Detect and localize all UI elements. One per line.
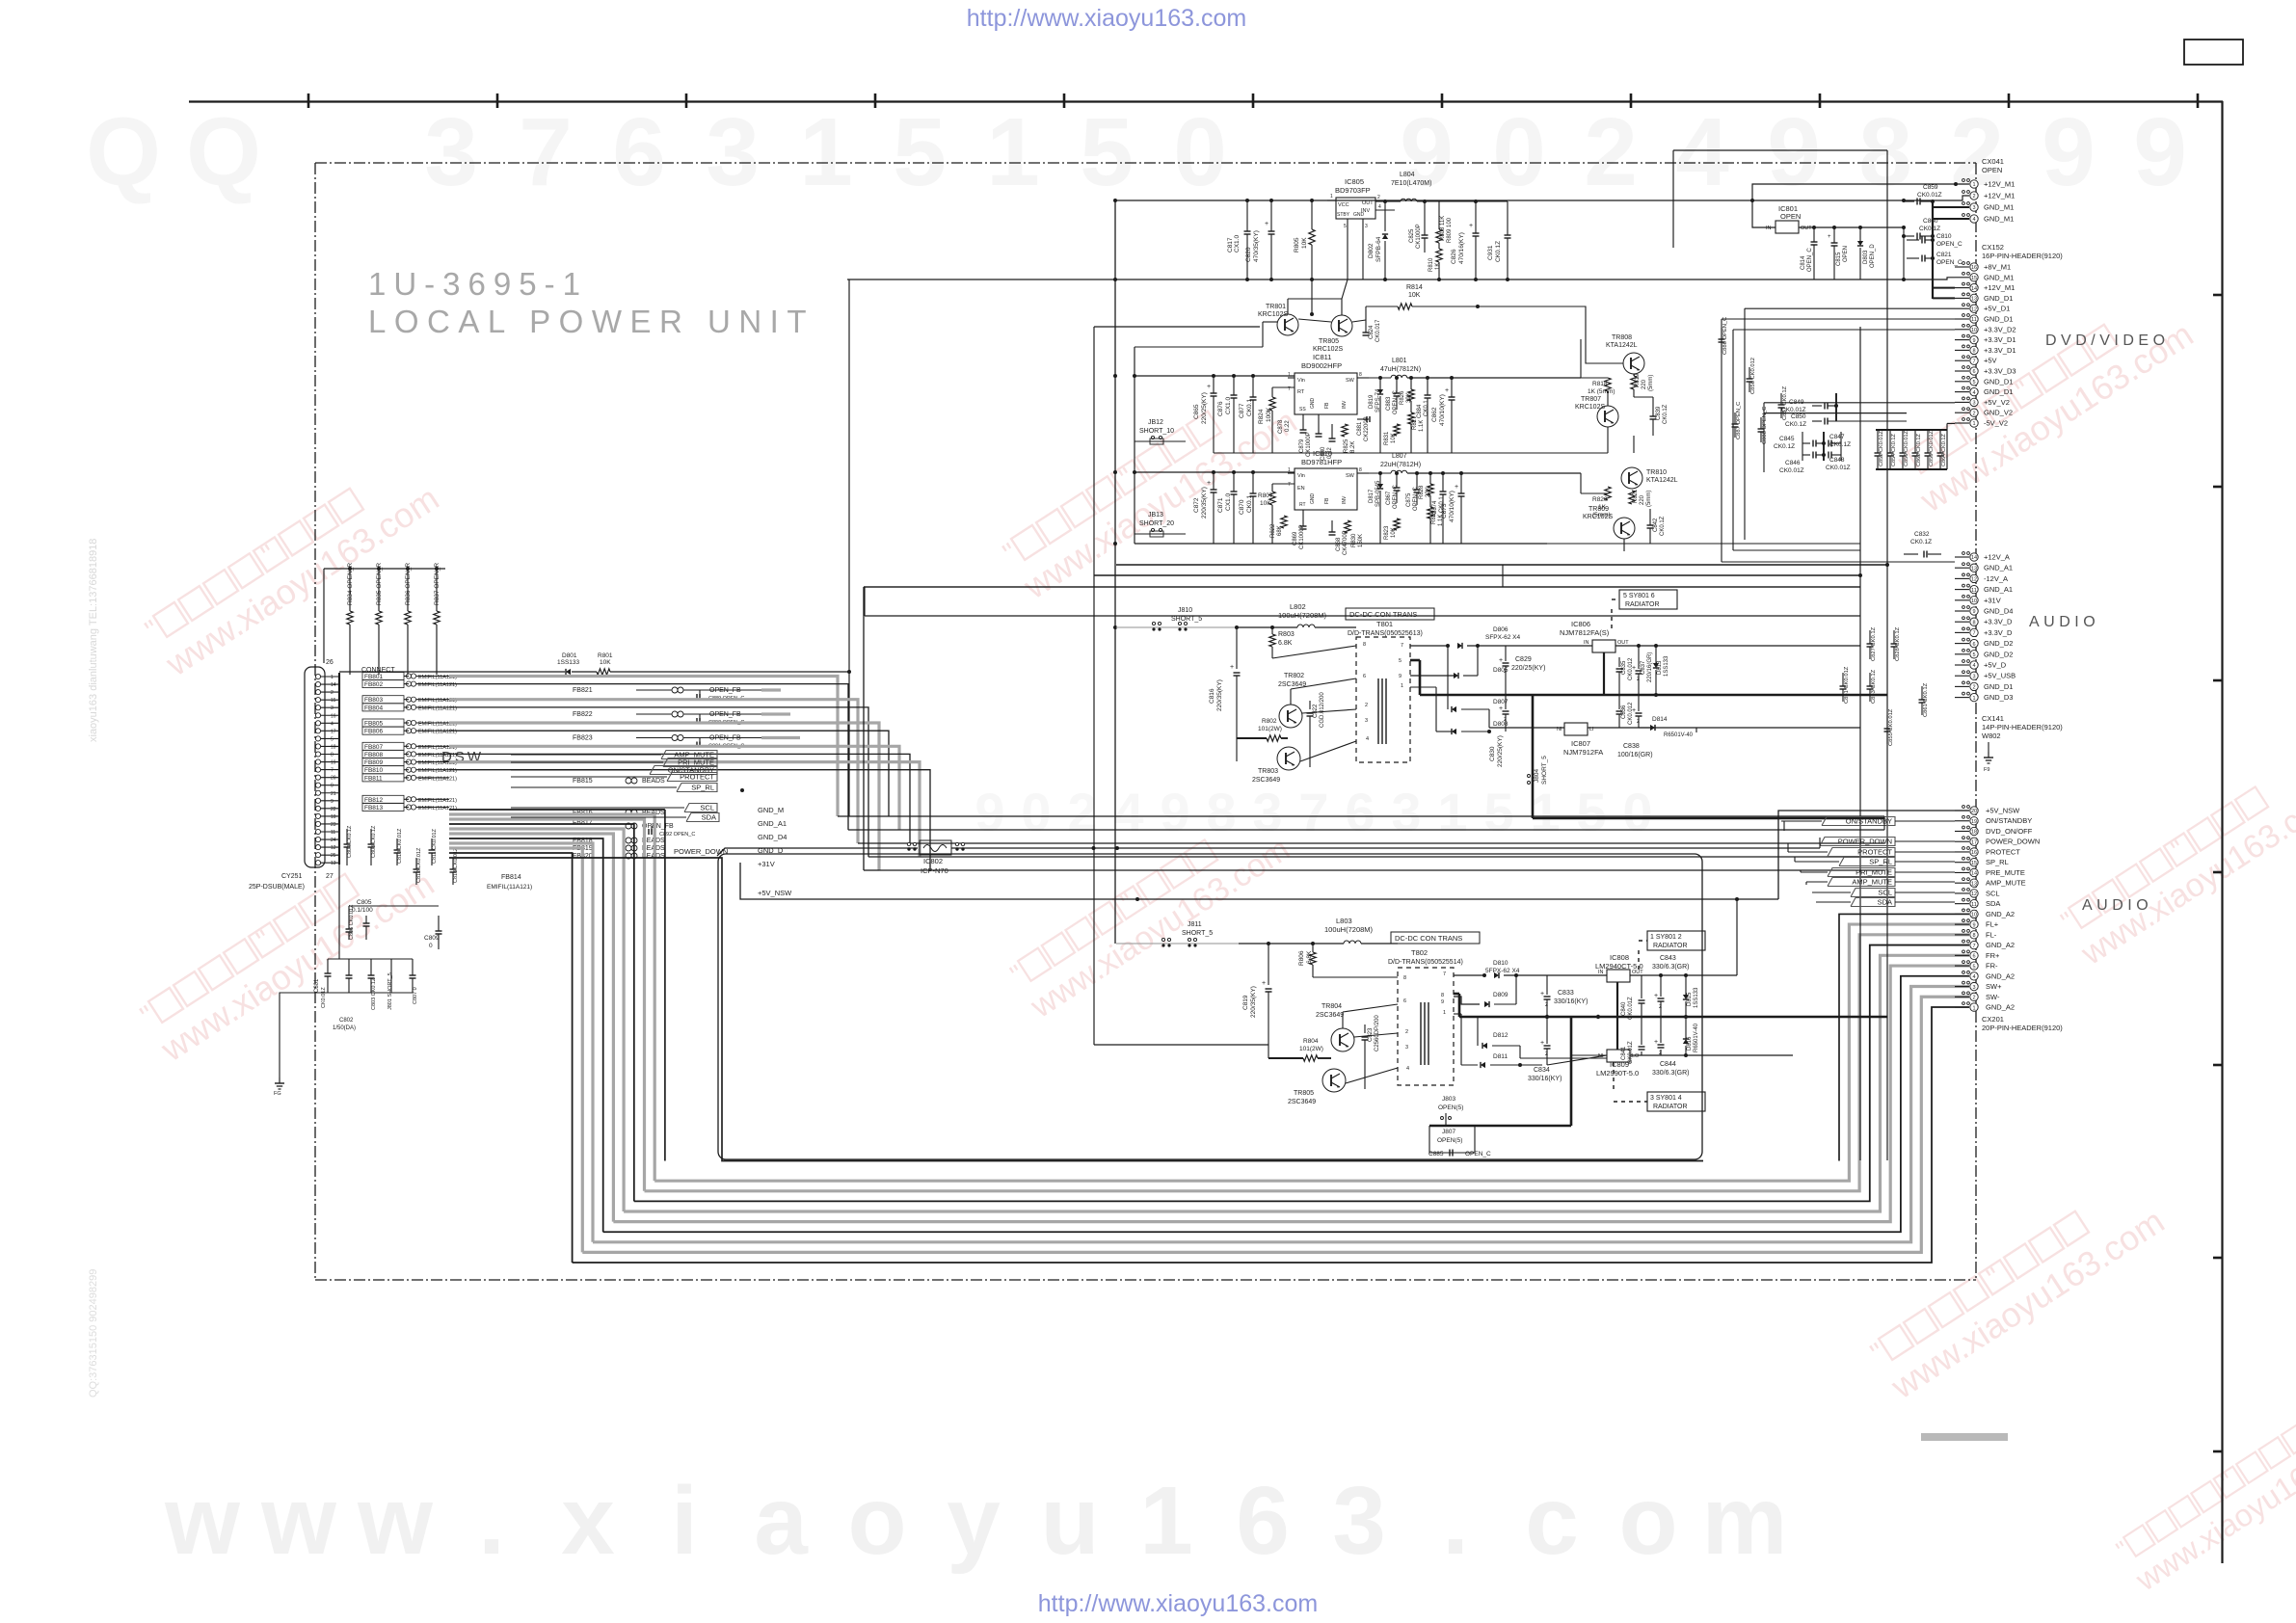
capacitor C880 0.22 <box>1331 424 1333 439</box>
svg-text:Q: Q <box>186 98 261 206</box>
svg-text:AUDIO: AUDIO <box>2029 614 2099 630</box>
svg-text:IC810: IC810 <box>1313 449 1332 458</box>
svg-text:DC-DC CON TRANS: DC-DC CON TRANS <box>1395 934 1462 943</box>
svg-text:C828 CK0.1Z: C828 CK0.1Z <box>1895 626 1901 661</box>
capacitor C833 330/16(KY) <box>1544 996 1551 998</box>
svg-text:C931: C931 <box>1487 245 1494 260</box>
svg-text:D810: D810 <box>1493 960 1508 967</box>
svg-text:FL-: FL- <box>1986 930 1997 939</box>
svg-text:C814: C814 <box>1801 255 1806 270</box>
svg-text:CK2200P: CK2200P <box>1364 416 1370 441</box>
svg-text:R814: R814 <box>1406 284 1423 291</box>
resistor R808 11K R809 100 <box>1438 201 1440 229</box>
svg-text:4: 4 <box>1972 663 1975 669</box>
svg-text:8: 8 <box>1359 372 1362 378</box>
svg-text:PROTECT: PROTECT <box>680 773 714 782</box>
svg-text:ICP-N70: ICP-N70 <box>921 866 948 875</box>
svg-text:L804: L804 <box>1400 172 1415 178</box>
wire flag feeds <box>1781 820 1822 822</box>
wire right vertical feed 1930 <box>1859 327 1861 1160</box>
svg-text:CY251: CY251 <box>281 873 303 880</box>
svg-text:CK1000P: CK1000P <box>1299 524 1305 549</box>
svg-text:C817: C817 <box>1227 237 1234 253</box>
svg-text:9: 9 <box>974 782 1004 842</box>
svg-text:DC-DC CON TRANS: DC-DC CON TRANS <box>1349 610 1417 619</box>
svg-text:SW: SW <box>1346 473 1355 479</box>
diode D815 1SS133 <box>1685 975 1687 995</box>
svg-text:J803: J803 <box>1442 1096 1455 1103</box>
svg-text:9: 9 <box>1160 782 1189 842</box>
svg-text:C808 CK0.1Z: C808 CK0.1Z <box>371 825 377 858</box>
svg-text:C861 CK0.1Z: C861 CK0.1Z <box>1923 682 1929 717</box>
svg-text:11: 11 <box>1971 588 1977 594</box>
svg-text:5: 5 <box>331 736 334 742</box>
svg-text:SFPB-64: SFPB-64 <box>1375 236 1382 262</box>
svg-text:CX152: CX152 <box>1982 243 2004 252</box>
diode D814 R6501V-40 <box>1639 727 1650 729</box>
svg-text:C842: C842 <box>1653 518 1659 532</box>
svg-text:L807: L807 <box>1392 453 1407 460</box>
svg-text:CK0.01Z: CK0.01Z <box>1628 1041 1634 1064</box>
svg-text:+: + <box>1207 480 1211 487</box>
svg-text:2: 2 <box>1972 194 1975 200</box>
svg-text:R807: R807 <box>1258 492 1273 499</box>
svg-text:10K: 10K <box>1391 527 1397 538</box>
svg-text:FB803: FB803 <box>364 697 384 704</box>
resistor R824 100K <box>1271 387 1273 397</box>
capacitor C819 220/35(KY) <box>1268 944 1269 985</box>
decoupling caps cluster CX141 <box>1869 630 1871 644</box>
svg-text:TR805: TR805 <box>1319 338 1339 345</box>
svg-text:+5V_D1: +5V_D1 <box>1984 305 2010 313</box>
svg-text:470/10(KY): 470/10(KY) <box>1449 491 1455 522</box>
svg-text:J804: J804 <box>1534 769 1540 783</box>
svg-text:9: 9 <box>1972 922 1975 928</box>
svg-text:330/6.3(GR): 330/6.3(GR) <box>1652 1070 1690 1077</box>
right border tick marks <box>2213 294 2222 297</box>
svg-text:OPEN: OPEN <box>1982 166 2002 174</box>
svg-text:R820: R820 <box>1592 496 1608 503</box>
svg-text:R805: R805 <box>1294 237 1300 253</box>
svg-text:C850: C850 <box>1791 413 1806 420</box>
svg-text:8: 8 <box>1972 933 1975 939</box>
svg-text:25: 25 <box>331 853 336 859</box>
svg-text:OPEN_D: OPEN_D <box>1870 244 1876 268</box>
svg-text:220/35(KY): 220/35(KY) <box>1250 986 1257 1018</box>
ground F9 below CX141 <box>1988 742 1989 752</box>
svg-text:R818: R818 <box>1592 381 1608 387</box>
svg-text:220: 220 <box>1642 379 1647 389</box>
revision gray bar bottom right <box>1921 1433 2008 1441</box>
svg-text:C830: C830 <box>1489 746 1496 761</box>
bus gray wires from OPEN_FB row <box>761 688 781 691</box>
svg-text:25P-DSUB(MALE): 25P-DSUB(MALE) <box>249 884 305 891</box>
svg-text:10K: 10K <box>600 659 611 666</box>
svg-text:GND_D1: GND_D1 <box>1984 315 2013 324</box>
svg-text:1: 1 <box>1443 1010 1446 1016</box>
svg-text:C844: C844 <box>1660 1061 1676 1068</box>
svg-text:SDA: SDA <box>1986 899 2000 908</box>
capacitor C822 CGD.012/200 <box>1309 701 1311 709</box>
svg-text:C871: C871 <box>1217 497 1224 513</box>
svg-text:3: 3 <box>1332 1467 1386 1575</box>
capacitor C837 220/16(GR) <box>1636 670 1642 672</box>
wire cap field ties <box>1764 402 1955 404</box>
svg-text:D809: D809 <box>1493 992 1508 998</box>
svg-text:12: 12 <box>1971 577 1977 583</box>
svg-text:100uH(7208M): 100uH(7208M) <box>1324 925 1374 934</box>
svg-text:BD9781HFP: BD9781HFP <box>1301 458 1342 466</box>
capacitor C876 CX1.0 <box>1233 376 1235 395</box>
svg-text:R806: R806 <box>1298 950 1305 966</box>
svg-text:1: 1 <box>1972 182 1975 188</box>
svg-text:12: 12 <box>1971 891 1977 897</box>
svg-text:m: m <box>1702 1467 1788 1575</box>
svg-text:1/50(DA): 1/50(DA) <box>333 1025 356 1031</box>
svg-text:CK0.1Z: CK0.1Z <box>1919 226 1940 232</box>
svg-text:1: 1 <box>1288 372 1291 378</box>
svg-text:7: 7 <box>1443 971 1446 977</box>
wire TR809 emitter <box>1623 539 1625 551</box>
svg-text:CK0.01Z: CK0.01Z <box>1781 407 1806 413</box>
svg-text:R830: R830 <box>1351 533 1357 547</box>
svg-text:8: 8 <box>1972 349 1975 355</box>
svg-text:J807: J807 <box>1442 1129 1455 1135</box>
svg-text:IC808: IC808 <box>1610 953 1629 962</box>
svg-text:C807 0: C807 0 <box>413 987 418 1004</box>
svg-text:R6501V-40: R6501V-40 <box>1694 1023 1699 1052</box>
svg-text:FB823: FB823 <box>573 735 593 742</box>
svg-text:SCL: SCL <box>700 804 714 812</box>
svg-text:EMIFIL(11A121): EMIFIL(11A121) <box>487 884 532 891</box>
svg-text:2: 2 <box>1377 195 1380 200</box>
svg-text:C876: C876 <box>1217 401 1224 416</box>
svg-text:1: 1 <box>1437 782 1467 842</box>
capacitor C883 OPEN_C <box>1396 378 1398 393</box>
svg-text:14: 14 <box>331 682 336 688</box>
svg-text:10: 10 <box>1971 599 1977 604</box>
svg-text:+: + <box>1828 234 1831 240</box>
svg-text:CX041: CX041 <box>1982 157 2004 166</box>
diode D817 SPB-0545 <box>1379 473 1381 484</box>
capacitor C877 CK0.1 <box>1252 376 1254 397</box>
thick mid rail lower <box>1459 1016 1887 1019</box>
svg-text:IN: IN <box>1584 640 1589 646</box>
wire +12V_M1 pin1 feed <box>1752 184 1969 200</box>
svg-text:4: 4 <box>1113 782 1143 842</box>
svg-text:15: 15 <box>331 698 336 704</box>
svg-text:3: 3 <box>1972 401 1975 407</box>
ferrite bead FB812 <box>362 795 404 803</box>
bus outer black line FB814 route <box>449 858 1703 1161</box>
capacitor C870 CK0.1 <box>1252 472 1254 493</box>
svg-text:11: 11 <box>1971 317 1977 323</box>
svg-text:8: 8 <box>1206 782 1236 842</box>
svg-text:0.1/100: 0.1/100 <box>352 907 373 914</box>
connector CY251 25P-DSUB body <box>305 667 325 867</box>
svg-text:6: 6 <box>1345 782 1375 842</box>
svg-text:R804: R804 <box>1303 1038 1319 1045</box>
svg-text:+: + <box>1499 657 1503 664</box>
svg-text:D819: D819 <box>1369 394 1375 409</box>
svg-text:C836: C836 <box>1621 705 1627 719</box>
svg-text:C864 CK0.1Z: C864 CK0.1Z <box>1941 434 1947 466</box>
resistor R822 68K <box>1281 516 1287 528</box>
svg-text:+: + <box>1230 664 1234 671</box>
svg-text:C820: C820 <box>1245 247 1252 262</box>
svg-text:TR807: TR807 <box>1581 396 1601 403</box>
svg-text:0: 0 <box>1021 782 1051 842</box>
capacitor C835 CK0.012 <box>1603 652 1605 665</box>
svg-text:SHORT_5: SHORT_5 <box>1182 930 1213 937</box>
svg-text:SCL: SCL <box>1878 889 1892 897</box>
svg-text:CK0.1Z: CK0.1Z <box>1774 443 1795 450</box>
capacitor C865 220/25(KY) <box>1213 376 1215 393</box>
svg-text:330/16(KY): 330/16(KY) <box>1554 998 1588 1005</box>
svg-text:C812 CK0.01Z: C812 CK0.01Z <box>416 847 422 883</box>
net flag SCL <box>511 807 684 809</box>
svg-text:C886 OPEN_C: C886 OPEN_C <box>1722 317 1728 355</box>
svg-text:RT: RT <box>1299 502 1306 508</box>
svg-text:2SC3649: 2SC3649 <box>1252 777 1280 784</box>
svg-text:SDA: SDA <box>1878 898 1892 907</box>
svg-text:8: 8 <box>1972 620 1975 625</box>
transistor TR805 KRC102S <box>1331 315 1352 336</box>
decoupling caps cluster CX152 <box>1749 367 1750 379</box>
svg-text:2: 2 <box>1972 411 1975 416</box>
svg-text:FB813: FB813 <box>364 805 384 811</box>
svg-text:SS: SS <box>1299 407 1306 412</box>
svg-text:CK0.1: CK0.1 <box>1246 399 1253 416</box>
wire thick GND_M1 column <box>1932 201 1934 299</box>
svg-text:5FPX-62 X4: 5FPX-62 X4 <box>1485 968 1520 974</box>
svg-text:CK0.01Z: CK0.01Z <box>1628 997 1634 1020</box>
resistor R823 10K <box>1394 519 1400 530</box>
svg-text:+5V_NSW: +5V_NSW <box>758 889 792 897</box>
svg-text:3: 3 <box>1365 718 1368 724</box>
svg-text:CK0.1Z: CK0.1Z <box>1663 404 1669 424</box>
svg-text:6: 6 <box>1236 1467 1290 1575</box>
svg-text:QQ:376315150 902498299: QQ:376315150 902498299 <box>88 1269 99 1397</box>
svg-text:FB822: FB822 <box>573 711 593 718</box>
svg-text:20: 20 <box>1971 809 1977 814</box>
wire rails into right section <box>1580 339 1582 378</box>
svg-text:D814: D814 <box>1652 716 1668 723</box>
svg-text:1: 1 <box>1401 683 1403 689</box>
svg-text:1.1K: 1.1K <box>1419 420 1425 432</box>
svg-text:+5V_NSW: +5V_NSW <box>1986 807 2020 815</box>
label DC-DC CON TRANS lower <box>1391 932 1480 944</box>
svg-text:6: 6 <box>1363 674 1366 679</box>
svg-text:0.22: 0.22 <box>1285 420 1291 432</box>
svg-text:GND_M1: GND_M1 <box>1984 273 2014 281</box>
resistor R810 1K <box>1438 243 1440 249</box>
svg-text:D815: D815 <box>1687 992 1693 1006</box>
svg-text:4: 4 <box>1366 736 1369 742</box>
capacitor C815 OPEN <box>1832 226 1836 229</box>
svg-text:1: 1 <box>986 98 1040 206</box>
capacitor C869 CK1000P <box>1302 510 1304 526</box>
svg-text:CX141: CX141 <box>1982 714 2004 723</box>
svg-text:26: 26 <box>326 659 334 666</box>
ferrite bead FB801 <box>362 673 404 680</box>
svg-text:C862 CK0.1Z: C862 CK0.1Z <box>1916 434 1922 466</box>
svg-text:5: 5 <box>1344 224 1347 229</box>
svg-text:17: 17 <box>1971 839 1977 845</box>
svg-text:C873: C873 <box>1441 503 1448 519</box>
svg-text:C843: C843 <box>1660 955 1676 962</box>
svg-text:KRC102S: KRC102S <box>1583 514 1613 520</box>
svg-text:R803: R803 <box>1278 631 1295 638</box>
svg-text:14: 14 <box>1971 555 1977 561</box>
svg-text:11: 11 <box>1971 902 1977 908</box>
svg-text:18: 18 <box>331 744 336 750</box>
svg-text:18: 18 <box>1971 830 1977 836</box>
svg-text:47uH(7812N): 47uH(7812N) <box>1380 366 1421 373</box>
svg-text:1: 1 <box>1139 1467 1193 1575</box>
svg-text:7: 7 <box>1288 386 1291 392</box>
svg-text:C845: C845 <box>1779 436 1795 442</box>
capacitor C820 470/35(KY) <box>1270 200 1272 231</box>
svg-text:9: 9 <box>1400 98 1454 206</box>
svg-text:TR809: TR809 <box>1589 506 1609 513</box>
svg-text:R802: R802 <box>1262 718 1277 725</box>
svg-text:FB821: FB821 <box>573 687 593 694</box>
wire IC810 ground row <box>1135 543 1547 545</box>
svg-text:+3.3V_D1: +3.3V_D1 <box>1984 335 2016 344</box>
svg-text:+: + <box>1469 223 1473 229</box>
resistor R831 10K <box>1394 424 1400 436</box>
svg-text:+: + <box>1499 705 1503 712</box>
ferrite bead FB813 <box>362 804 404 811</box>
svg-text:220/35(KY): 220/35(KY) <box>1216 679 1223 711</box>
svg-text:J810: J810 <box>1178 607 1192 614</box>
svg-text:R826: R826 <box>1400 390 1405 405</box>
wire transistor bases <box>1311 279 1313 314</box>
svg-text:CK0.017: CK0.017 <box>1375 319 1381 342</box>
capacitor C807 <box>412 959 414 975</box>
svg-text:C852 CK0.01Z: C852 CK0.01Z <box>1879 430 1884 466</box>
svg-text:+: + <box>1207 384 1211 390</box>
svg-text:C816: C816 <box>1209 688 1215 704</box>
svg-text:http://www.xiaoyu163.com: http://www.xiaoyu163.com <box>967 5 1246 32</box>
svg-text:C855 CK0.01Z: C855 CK0.01Z <box>1888 708 1894 746</box>
svg-text:13: 13 <box>1971 297 1977 303</box>
svg-text:2: 2 <box>1584 98 1638 206</box>
svg-text:TR801: TR801 <box>1266 304 1286 310</box>
svg-text:GND_M: GND_M <box>758 806 784 814</box>
svg-text:TR810: TR810 <box>1646 469 1667 476</box>
resistor R806 6.8K <box>1312 944 1314 952</box>
svg-text:3: 3 <box>1405 1045 1408 1051</box>
svg-text:2SC3649: 2SC3649 <box>1288 1099 1316 1105</box>
svg-text:C810: C810 <box>1936 233 1952 240</box>
svg-text:SHORT_20: SHORT_20 <box>1139 520 1174 527</box>
svg-text:http://www.xiaoyu163.com: http://www.xiaoyu163.com <box>1038 1590 1318 1617</box>
svg-text:14P-PIN-HEADER(9120): 14P-PIN-HEADER(9120) <box>1982 723 2063 732</box>
svg-text:FB815: FB815 <box>573 778 593 785</box>
svg-text:ON/STANDBY: ON/STANDBY <box>1986 816 2032 825</box>
svg-text:21: 21 <box>331 791 336 797</box>
svg-text:C877: C877 <box>1239 403 1245 418</box>
capacitor C838 100/16(GR) <box>1636 712 1642 714</box>
svg-text:(5mm): (5mm) <box>1646 491 1652 507</box>
svg-text:2: 2 <box>1972 996 1975 1001</box>
svg-text:10: 10 <box>1971 328 1977 333</box>
svg-text:SHORT_5: SHORT_5 <box>1541 756 1548 785</box>
ferrite bead FB810 <box>362 766 404 774</box>
svg-text:TR808: TR808 <box>1612 334 1632 341</box>
svg-text:R819: R819 <box>1635 373 1641 387</box>
svg-text:C839: C839 <box>1656 406 1662 420</box>
svg-text:GND_A2: GND_A2 <box>1986 941 2015 949</box>
svg-text:15: 15 <box>1971 276 1977 281</box>
svg-text:BEADS: BEADS <box>642 778 665 785</box>
svg-text:12: 12 <box>1971 306 1977 312</box>
capacitor C840 CK0.01Z <box>1639 999 1645 1001</box>
svg-text:R823: R823 <box>1384 525 1390 540</box>
resistor R818 1K(5mm) <box>1581 377 1608 379</box>
wire ground rail to CX152 pin15 <box>1547 279 1904 280</box>
svg-text:CK0.01Z: CK0.01Z <box>1917 192 1942 199</box>
resistor R828 22K R829 1.1K <box>1429 473 1431 484</box>
svg-text:R822: R822 <box>1270 523 1276 538</box>
thick output rail upper <box>1420 694 1887 697</box>
svg-text:GND_A1: GND_A1 <box>758 819 787 828</box>
capacitor C844 330/6.3(GR) <box>1658 1044 1665 1046</box>
svg-text:VCC: VCC <box>1338 202 1349 208</box>
svg-text:GND_A2: GND_A2 <box>1986 1003 2015 1012</box>
svg-text:o: o <box>847 1467 906 1575</box>
svg-text:1: 1 <box>1330 194 1333 200</box>
capacitor C873 470/10(KY) <box>1460 473 1462 493</box>
svg-text:CONNECT: CONNECT <box>361 667 395 674</box>
svg-text:220: 220 <box>1640 494 1645 505</box>
svg-text:POWER_DOWN: POWER_DOWN <box>1986 838 2040 846</box>
capacitor C872 220/35(KY) <box>1213 472 1215 490</box>
svg-text:5 SY801 6: 5 SY801 6 <box>1623 593 1655 599</box>
svg-text:-5V_V2: -5V_V2 <box>1984 419 2008 428</box>
svg-text:5: 5 <box>1972 964 1975 970</box>
svg-text:8: 8 <box>1858 98 1912 206</box>
svg-text:CK0.1Z: CK0.1Z <box>1660 516 1666 536</box>
radiator SY801 pins 1-2 <box>1647 931 1705 950</box>
wire transformer T802 secondary <box>1454 974 1484 976</box>
svg-text:10: 10 <box>1971 913 1977 918</box>
ferrite bead FB807 <box>362 742 404 750</box>
transistor TR803 2SC3649 <box>1277 747 1300 770</box>
svg-text:C888 OPEN_C: C888 OPEN_C <box>1762 407 1768 444</box>
svg-text:1K (5mm): 1K (5mm) <box>1588 388 1615 395</box>
svg-text:FG: FG <box>274 1091 281 1097</box>
svg-text:2SC3649: 2SC3649 <box>1316 1012 1344 1019</box>
svg-text:1SS133: 1SS133 <box>557 659 580 666</box>
svg-text:POWER_DOWN: POWER_DOWN <box>1838 838 1892 846</box>
svg-text:TR802: TR802 <box>1284 673 1304 679</box>
svg-text:y: y <box>947 1467 1001 1575</box>
svg-text:D817: D817 <box>1369 489 1375 503</box>
svg-text:PROTECT: PROTECT <box>1857 848 1892 857</box>
svg-text:SFPX-62 X4: SFPX-62 X4 <box>1485 634 1521 641</box>
svg-text:T801: T801 <box>1376 620 1393 628</box>
svg-text:C841: C841 <box>1621 1046 1627 1060</box>
svg-text:FR+: FR+ <box>1986 951 2000 960</box>
svg-text:FR-: FR- <box>1986 962 1998 971</box>
svg-text:C859: C859 <box>1923 184 1938 191</box>
svg-text:+12V_A: +12V_A <box>1984 553 2010 562</box>
svg-text:C856 CK0.012: C856 CK0.012 <box>1750 358 1756 394</box>
svg-text:11: 11 <box>331 830 335 836</box>
